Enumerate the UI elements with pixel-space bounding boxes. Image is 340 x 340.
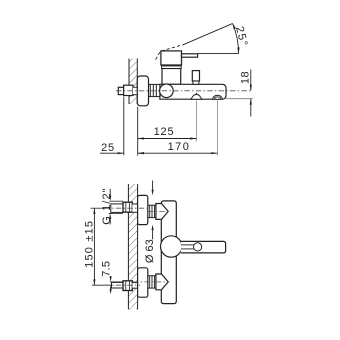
svg-text:7.5: 7.5 — [100, 261, 112, 277]
bottom body inlet centerline — [133, 281, 170, 283]
dim O63 — [152, 181, 154, 240]
wall lines (front view) — [127, 184, 129, 310]
lever (front view) — [181, 241, 226, 253]
top inlet pipe — [111, 204, 123, 213]
bottom inlet ext line lower (pipe center) — [92, 284, 123, 286]
svg-text:170: 170 — [168, 141, 191, 153]
horizontal dimension line along lever top — [198, 53, 239, 55]
dim 125 — [138, 126, 197, 140]
25 deg inclined dimension line — [183, 24, 232, 45]
svg-text:25: 25 — [101, 142, 115, 154]
top body inlet centerline — [148, 210, 170, 212]
bottom pipe through wall — [132, 283, 137, 289]
adjustable connector ridges — [149, 84, 161, 96]
centerline (side view) — [116, 90, 251, 92]
handle neck — [162, 69, 181, 85]
top hex nut pentagon — [156, 204, 168, 220]
pipe through wall (side view) — [133, 87, 137, 95]
shower outlet boss — [212, 95, 222, 99]
handle collar — [162, 66, 182, 69]
arc arrow lower — [237, 47, 239, 53]
spout outlet boss — [191, 93, 202, 99]
dim 170 — [138, 141, 218, 154]
lever screw circle — [194, 243, 202, 251]
wall flange escutcheon (side view) — [137, 76, 148, 106]
wall hatching (side view) — [129, 59, 137, 105]
svg-text:150 ±15: 150 ±15 — [84, 220, 96, 268]
top escutcheon — [138, 195, 148, 224]
bottom inlet pipe — [112, 282, 124, 288]
bottom escutcheon — [138, 268, 148, 297]
top connector ridges — [148, 205, 156, 217]
svg-text:18: 18 — [240, 71, 252, 84]
dim 150 +-15 — [91, 208, 106, 285]
mixer body (side view) — [160, 84, 226, 99]
top inlet G1/2 ext lines — [110, 201, 124, 213]
top inlet centerline — [105, 207, 150, 209]
bottom inlet ext line upper (body center) — [110, 281, 136, 283]
diverter knob — [192, 71, 199, 81]
extension line from nut left edge — [123, 97, 125, 156]
handle lever — [182, 54, 198, 57]
svg-text:Ø 63: Ø 63 — [144, 239, 156, 263]
diverter knob collar — [193, 81, 199, 84]
lever stem lines — [181, 245, 194, 249]
top pipe through wall — [132, 204, 137, 212]
extension line from wall face — [137, 107, 139, 156]
top inlet union nut — [123, 202, 132, 212]
bottom inlet union nut — [123, 281, 132, 291]
extension line below spout outlet — [195, 100, 197, 141]
G1/2 dimension arrows — [109, 189, 111, 225]
mixer body (front view) — [161, 201, 176, 304]
extension line below shower outlet — [217, 100, 219, 155]
handle cap — [161, 51, 182, 65]
dim 25 (left, arrows outside) — [100, 142, 144, 154]
arc arrow upper — [233, 23, 236, 29]
svg-text:G.1/2": G.1/2" — [101, 187, 113, 224]
wall lines (side view) — [128, 59, 130, 105]
dim 7.5 — [110, 276, 112, 293]
bottom pipe centerline — [105, 284, 141, 286]
union nut S-connector (side view) — [124, 85, 133, 95]
wall hatching (front view) — [128, 184, 137, 310]
raised handle dashed outline — [156, 45, 183, 60]
pipe stub left of union nut — [118, 87, 124, 94]
bottom hex nut pentagon — [156, 274, 168, 290]
cartridge circle (front view) — [161, 236, 182, 257]
cartridge dome circle (side view) — [160, 84, 174, 98]
svg-text:125: 125 — [154, 126, 175, 138]
angle arc 25 deg — [233, 23, 239, 53]
body bottom edge extension to 18 dim — [226, 98, 253, 100]
bottom connector ridges — [148, 276, 156, 288]
dim 18 vertical line — [250, 70, 252, 117]
